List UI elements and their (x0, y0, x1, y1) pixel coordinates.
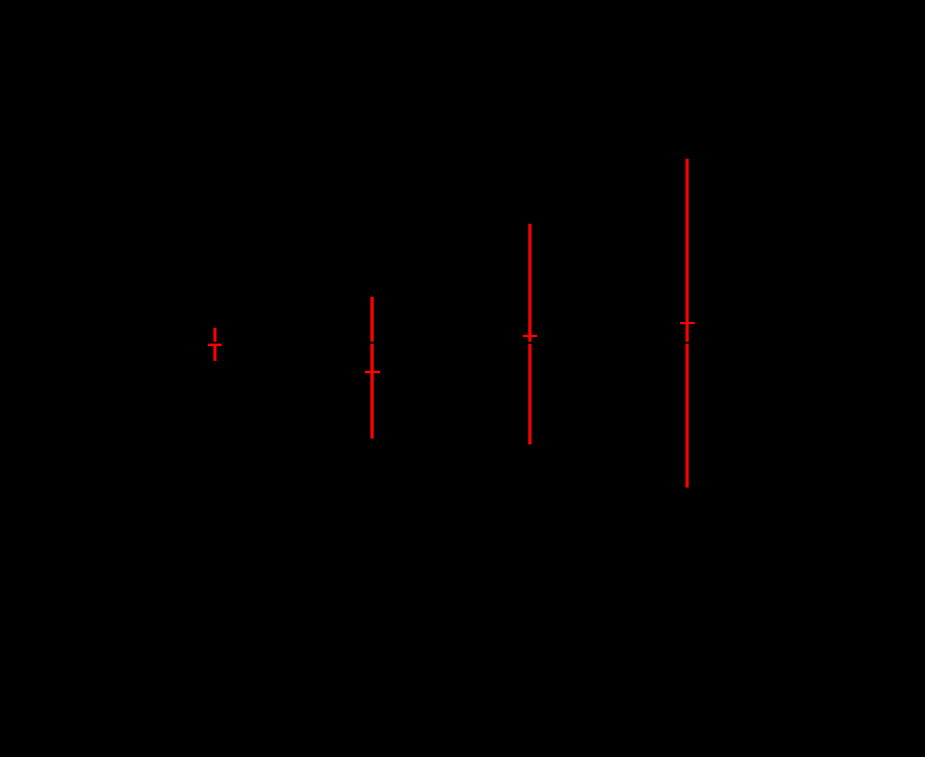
data point marker tick 3 (523, 335, 537, 337)
data point marker tick 4 (680, 322, 695, 324)
error bar 2 vertical line (370, 297, 373, 439)
error bar 4 vertical line (686, 159, 689, 488)
data point marker tick 2 (365, 371, 380, 373)
error bar 3 vertical line (528, 224, 531, 445)
error bar 1 vertical line (213, 328, 216, 361)
black occluding line (overlapping series drawn in black) (200, 342, 700, 344)
data point marker tick 1 (208, 344, 222, 347)
